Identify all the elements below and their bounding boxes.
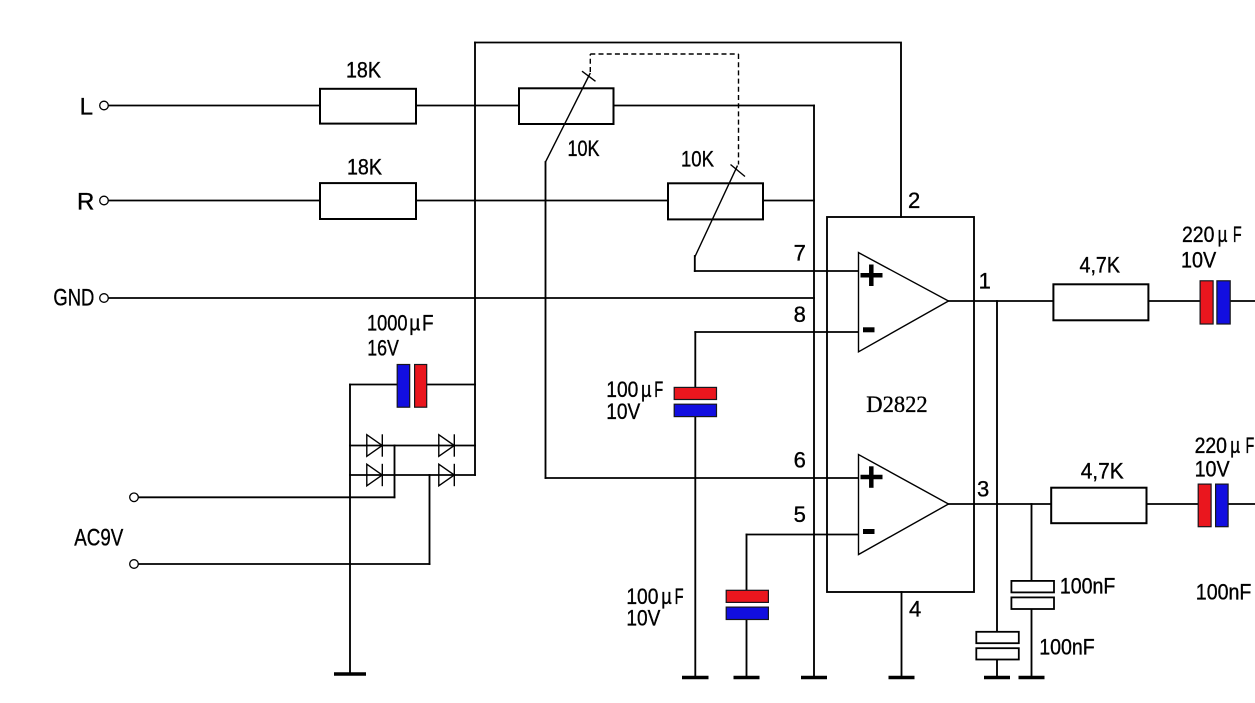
svg-text:1000µF: 1000µF bbox=[367, 311, 434, 336]
svg-text:4,7K: 4,7K bbox=[1081, 459, 1124, 484]
svg-text:100nF: 100nF bbox=[1039, 634, 1095, 659]
svg-text:16V: 16V bbox=[367, 336, 399, 361]
svg-text:L: L bbox=[80, 94, 93, 121]
svg-text:10K: 10K bbox=[568, 136, 600, 161]
svg-text:18K: 18K bbox=[346, 58, 381, 83]
svg-text:8: 8 bbox=[794, 302, 806, 327]
svg-text:220µF: 220µF bbox=[1195, 433, 1255, 458]
svg-text:2: 2 bbox=[908, 188, 920, 213]
svg-text:3: 3 bbox=[977, 477, 989, 502]
svg-text:AC9V: AC9V bbox=[74, 524, 123, 551]
svg-text:100nF: 100nF bbox=[1196, 580, 1252, 605]
svg-text:R: R bbox=[77, 189, 94, 216]
svg-text:GND: GND bbox=[53, 285, 94, 312]
svg-text:220µF: 220µF bbox=[1182, 222, 1242, 247]
svg-text:10K: 10K bbox=[681, 147, 714, 172]
svg-text:10V: 10V bbox=[1195, 456, 1230, 481]
svg-text:6: 6 bbox=[794, 447, 806, 472]
svg-text:18K: 18K bbox=[347, 155, 382, 180]
svg-text:4,7K: 4,7K bbox=[1080, 252, 1121, 277]
svg-text:4: 4 bbox=[909, 597, 921, 622]
svg-text:D2822: D2822 bbox=[866, 392, 927, 417]
svg-text:7: 7 bbox=[794, 241, 806, 266]
svg-text:100nF: 100nF bbox=[1060, 573, 1116, 598]
svg-text:10V: 10V bbox=[606, 399, 640, 424]
svg-text:5: 5 bbox=[794, 502, 806, 527]
svg-text:10V: 10V bbox=[626, 606, 660, 631]
svg-text:1: 1 bbox=[979, 268, 991, 293]
svg-text:10V: 10V bbox=[1181, 247, 1216, 272]
